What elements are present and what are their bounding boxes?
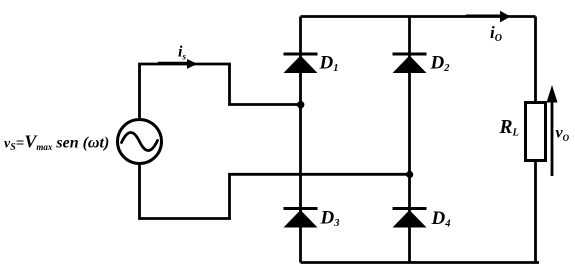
voltage arrow vO shaft xyxy=(551,100,554,176)
current arrow iO head xyxy=(500,11,511,23)
voltage arrow vO head xyxy=(547,85,558,103)
svg-text:iO: iO xyxy=(490,23,502,44)
svg-text:D3: D3 xyxy=(320,208,340,230)
diode D1 cathode bar xyxy=(284,53,318,56)
current arrow iO shaft xyxy=(466,15,501,18)
junction node dot right (bridge right mid) xyxy=(406,171,413,178)
ac source sine wave xyxy=(122,132,158,150)
svg-text:is: is xyxy=(178,44,186,62)
svg-text:D4: D4 xyxy=(431,208,451,230)
diode D3 triangle xyxy=(284,210,318,228)
resistor RL box xyxy=(526,103,546,161)
wire: source bottom lead down and right to bridge right mid node xyxy=(140,164,410,219)
wire: bridge left branch vertical xyxy=(299,17,302,263)
ac source VS circle xyxy=(118,120,162,164)
diode D2 triangle xyxy=(393,56,427,74)
wire: top rail to load xyxy=(301,15,536,18)
junction node dot left (bridge left mid) xyxy=(297,101,304,108)
wire: bottom rail xyxy=(301,261,540,264)
wire: load branch vertical xyxy=(534,17,537,263)
svg-text:vS=Vmax sen (ωt): vS=Vmax sen (ωt) xyxy=(4,132,109,154)
diode D4 cathode bar xyxy=(393,207,427,210)
current arrow is shaft xyxy=(158,62,189,65)
svg-text:D1: D1 xyxy=(319,53,339,75)
diode D1 triangle xyxy=(284,56,318,74)
current arrow is head xyxy=(187,59,198,69)
diode D3 cathode bar xyxy=(284,207,318,210)
diode D2 cathode bar xyxy=(393,53,427,56)
svg-text:RL: RL xyxy=(499,117,519,139)
diode D4 triangle xyxy=(393,210,427,228)
svg-text:vO: vO xyxy=(556,125,570,144)
wire: source top lead up and right to bridge left mid node xyxy=(140,64,301,119)
wire: bridge right branch vertical xyxy=(408,17,411,263)
svg-text:D2: D2 xyxy=(430,53,451,75)
